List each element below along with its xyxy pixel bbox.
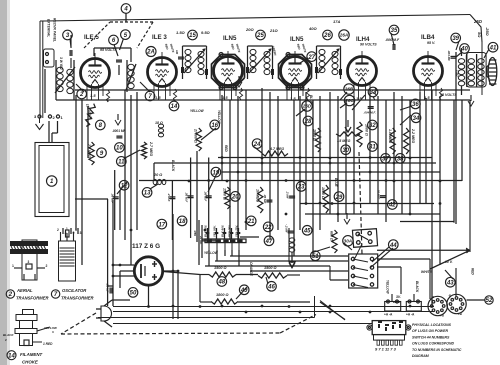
- svg-text:18: 18: [179, 219, 186, 225]
- svg-text:+A -A: +A -A: [384, 313, 393, 317]
- svg-text:.0001 MF: .0001 MF: [112, 129, 127, 133]
- svg-text:CHOKE: CHOKE: [22, 360, 39, 365]
- svg-text:10 MEG: 10 MEG: [256, 189, 260, 202]
- svg-text:RECVR PANEL: RECVR PANEL: [53, 18, 57, 42]
- svg-text:YELLOW: YELLOW: [190, 109, 205, 113]
- svg-text:.05 M.F: .05 M.F: [204, 191, 208, 201]
- svg-text:25Ω: 25Ω: [473, 19, 483, 24]
- svg-text:ON LUGS CORRESPOND: ON LUGS CORRESPOND: [412, 342, 454, 346]
- svg-text:43: 43: [446, 280, 454, 286]
- svg-text:680 Ω: 680 Ω: [330, 231, 334, 241]
- svg-text:RED: RED: [193, 230, 197, 236]
- svg-text:32: 32: [369, 123, 376, 129]
- svg-text:117 Z 6 G: 117 Z 6 G: [132, 243, 160, 250]
- svg-text:20: 20: [231, 195, 239, 201]
- svg-text:21Ω: 21Ω: [269, 28, 278, 33]
- svg-text:1: 1: [12, 264, 14, 268]
- svg-text:BLUE: BLUE: [309, 95, 313, 105]
- svg-text:51: 51: [312, 254, 319, 260]
- svg-text:9.5Ω: 9.5Ω: [201, 30, 211, 35]
- svg-text:2.2 MEG: 2.2 MEG: [87, 143, 91, 158]
- svg-text:20Ω: 20Ω: [245, 27, 254, 32]
- svg-text:YELLOW: YELLOW: [217, 110, 221, 125]
- svg-text:1000 Ω: 1000 Ω: [321, 187, 325, 199]
- svg-text:4.7 MEG: 4.7 MEG: [269, 147, 284, 151]
- svg-text:5Ω: 5Ω: [477, 32, 482, 38]
- svg-text:2: 2: [57, 228, 59, 232]
- svg-text:ILE 3: ILE 3: [152, 34, 167, 41]
- svg-text:40Ω: 40Ω: [308, 26, 317, 31]
- svg-text:TRANSFORMER: TRANSFORMER: [16, 296, 49, 301]
- svg-text:33: 33: [370, 90, 377, 96]
- svg-text:.05 M.F: .05 M.F: [185, 192, 189, 202]
- svg-text:1000 Ω: 1000 Ω: [313, 129, 317, 141]
- svg-text:36: 36: [412, 102, 419, 108]
- svg-text:13: 13: [144, 191, 151, 197]
- svg-text:3: 3: [75, 228, 77, 232]
- svg-text:BLK-90V.: BLK-90V.: [220, 224, 224, 237]
- svg-text:BLACK: BLACK: [3, 333, 14, 337]
- svg-text:95 VOLTS: 95 VOLTS: [440, 93, 457, 97]
- svg-text:.004 M.F.: .004 M.F.: [364, 111, 377, 115]
- svg-text:RED-25V.: RED-25V.: [227, 224, 231, 237]
- svg-text:26C: 26C: [344, 98, 354, 103]
- svg-text:FILAMENT: FILAMENT: [20, 352, 43, 357]
- svg-text:1.5: 1.5: [155, 95, 161, 100]
- svg-text:22: 22: [264, 225, 272, 231]
- svg-text:1800 Ω: 1800 Ω: [216, 293, 229, 297]
- svg-text:52: 52: [486, 298, 493, 304]
- svg-text:ILN5: ILN5: [290, 36, 304, 43]
- svg-text:3: 3: [28, 260, 30, 264]
- svg-text:-.5 MEG: -.5 MEG: [337, 139, 351, 143]
- svg-text:26B: 26B: [344, 87, 354, 92]
- svg-text:-.2 MF: -.2 MF: [285, 224, 289, 233]
- svg-text:1500 Ω: 1500 Ω: [223, 188, 227, 200]
- svg-text:TRANSFORMER: TRANSFORMER: [61, 296, 94, 301]
- svg-text:15: 15: [189, 33, 196, 39]
- svg-text:ILB4: ILB4: [421, 34, 435, 41]
- svg-text:28: 28: [304, 119, 312, 125]
- svg-text:26D: 26D: [302, 104, 312, 109]
- svg-text:.05 MF: .05 MF: [106, 283, 110, 293]
- svg-text:1 RED: 1 RED: [43, 342, 53, 346]
- svg-text:10: 10: [116, 146, 123, 152]
- svg-text:2A: 2A: [146, 50, 155, 56]
- svg-text:2.2 MEG: 2.2 MEG: [411, 128, 415, 143]
- svg-text:18 Ω: 18 Ω: [155, 121, 163, 125]
- svg-text:DIAGRAM: DIAGRAM: [412, 354, 429, 358]
- svg-text:26A: 26A: [339, 33, 348, 38]
- svg-text:1500 Ω: 1500 Ω: [264, 266, 277, 270]
- svg-text:3 W 682: 3 W 682: [59, 57, 63, 70]
- svg-text:-.01 M F: -.01 M F: [377, 188, 381, 199]
- svg-text:2: 2: [8, 292, 13, 298]
- svg-text:3: 3: [80, 231, 82, 235]
- svg-text:OF LUGS ON POWER: OF LUGS ON POWER: [412, 329, 448, 333]
- svg-text:95 VOLTS: 95 VOLTS: [100, 48, 117, 52]
- svg-text:PHYSICAL LOCATIONS: PHYSICAL LOCATIONS: [412, 323, 452, 327]
- svg-text:14: 14: [171, 104, 178, 110]
- svg-text:1.5Ω: 1.5Ω: [176, 30, 186, 35]
- svg-text:34: 34: [413, 116, 420, 122]
- svg-text:+A -A: +A -A: [406, 313, 415, 317]
- svg-text:3V.: 3V.: [396, 295, 401, 299]
- svg-text:.25Ω: .25Ω: [485, 27, 490, 37]
- svg-text:50: 50: [130, 291, 137, 297]
- svg-text:YELLOW: YELLOW: [386, 280, 390, 295]
- svg-text:1.5: 1.5: [424, 95, 430, 100]
- svg-text:46: 46: [267, 284, 275, 290]
- svg-text:4: 4: [123, 7, 128, 13]
- svg-text:BLUE: BLUE: [393, 300, 400, 304]
- svg-text:1500 Ω: 1500 Ω: [214, 266, 227, 270]
- svg-text:48: 48: [217, 280, 225, 286]
- svg-text:47: 47: [265, 239, 273, 245]
- svg-text:9 7 1 11 7 3: 9 7 1 11 7 3: [375, 347, 397, 352]
- svg-text:14: 14: [8, 353, 15, 359]
- svg-text:27000 Ω: 27000 Ω: [194, 128, 198, 143]
- svg-text:TO NUMBERS IN SCHEMATIC: TO NUMBERS IN SCHEMATIC: [412, 348, 462, 352]
- svg-text:BLACK: BLACK: [171, 160, 175, 172]
- svg-text:38: 38: [397, 157, 404, 163]
- svg-text:.05 MF: .05 MF: [263, 194, 267, 204]
- svg-text:95 V.: 95 V.: [427, 41, 435, 45]
- svg-text:ILN5: ILN5: [223, 35, 237, 42]
- svg-text:2.7 MEG: 2.7 MEG: [149, 141, 153, 156]
- svg-text:.05 M.F: .05 M.F: [110, 193, 114, 203]
- svg-text:.004 MF: .004 MF: [447, 50, 451, 61]
- svg-text:26: 26: [323, 33, 331, 39]
- svg-text:1.5: 1.5: [222, 95, 228, 100]
- svg-text:17: 17: [158, 222, 165, 228]
- svg-text:31: 31: [369, 145, 376, 151]
- svg-text:RED: RED: [471, 268, 475, 275]
- svg-text:BLUE: BLUE: [334, 178, 338, 188]
- svg-text:WHITE: WHITE: [421, 270, 433, 274]
- svg-text:90 VOLTS: 90 VOLTS: [360, 43, 377, 47]
- svg-text:30: 30: [342, 148, 349, 154]
- svg-text:11: 11: [118, 160, 125, 166]
- svg-text:EXTERNAL: EXTERNAL: [47, 19, 51, 37]
- svg-text:27: 27: [307, 55, 315, 61]
- svg-text:.2 M.F: .2 M.F: [167, 193, 171, 202]
- svg-text:42: 42: [388, 203, 396, 209]
- svg-text:44: 44: [389, 243, 397, 249]
- svg-text:30A: 30A: [344, 238, 352, 243]
- svg-text:1.5: 1.5: [90, 93, 96, 98]
- svg-text:.2 MF: .2 MF: [286, 191, 290, 199]
- svg-text:25: 25: [256, 33, 264, 39]
- svg-text:OSCILATOR: OSCILATOR: [62, 288, 86, 293]
- svg-text:17A: 17A: [333, 19, 340, 24]
- svg-text:AERIAL: AERIAL: [16, 288, 33, 293]
- svg-text:29: 29: [335, 195, 343, 201]
- svg-text:35: 35: [391, 28, 398, 34]
- svg-text:21: 21: [247, 219, 255, 225]
- svg-text:SWITCH 44 NUMBERS: SWITCH 44 NUMBERS: [412, 335, 450, 339]
- svg-text:RED: RED: [224, 145, 228, 152]
- svg-text:2: 2: [79, 92, 84, 98]
- svg-text:YEL-25V.: YEL-25V.: [234, 225, 238, 237]
- svg-text:23: 23: [297, 185, 305, 191]
- svg-text:BLACK: BLACK: [415, 281, 419, 293]
- svg-text:41: 41: [489, 45, 497, 51]
- svg-text:20 Ω: 20 Ω: [153, 173, 162, 177]
- svg-text:2: 2: [46, 264, 48, 268]
- svg-text:1.0 MEG: 1.0 MEG: [388, 129, 392, 143]
- svg-text:45: 45: [303, 228, 311, 234]
- svg-text:37: 37: [382, 157, 389, 163]
- svg-text:YEL 90V.: YEL 90V.: [212, 225, 216, 237]
